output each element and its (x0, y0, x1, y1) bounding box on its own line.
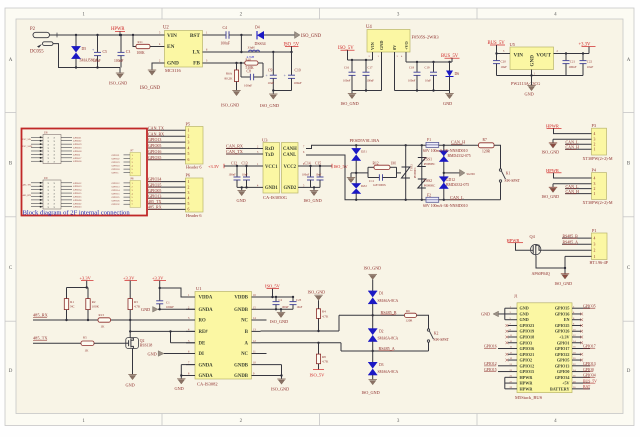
resistor R13 1K (98, 318, 111, 322)
wire net GPIO13 (148, 197, 186, 199)
svg-text:XT30PW(2+2)-M: XT30PW(2+2)-M (583, 200, 613, 205)
svg-text:D: D (627, 369, 631, 374)
svg-text:GND: GND (148, 351, 157, 356)
svg-text:Header 6: Header 6 (186, 164, 201, 169)
svg-text:GPIO5: GPIO5 (557, 358, 570, 363)
zener diode D6 (449, 62, 451, 71)
svg-text:ISO_GND: ISO_GND (542, 194, 560, 199)
svg-text:CA-IS3082: CA-IS3082 (197, 381, 218, 386)
wire (497, 75, 584, 77)
svg-text:3: 3 (594, 243, 596, 247)
capacitor C17 (365, 60, 367, 72)
svg-text:GPIO35: GPIO35 (148, 182, 161, 187)
svg-text:CAN_TX: CAN_TX (226, 149, 243, 154)
capacitor C15 (319, 166, 321, 177)
capacitor C21 (565, 54, 567, 61)
svg-text:D2: D2 (379, 329, 384, 333)
pin 13/14 GPIO3 (508, 342, 517, 344)
pin 11/12 GPIO18 (508, 336, 517, 338)
inductor L1 (212, 51, 292, 53)
svg-text:485_TX: 485_TX (33, 336, 48, 341)
capacitor C14 (310, 166, 312, 177)
svg-text:A: A (9, 58, 13, 63)
svg-text:NC: NC (70, 305, 74, 309)
svg-text:D: D (9, 369, 13, 374)
svg-text:GPIO22: GPIO22 (112, 157, 121, 160)
capacitor C5 (97, 35, 99, 52)
wire CANL rail (306, 155, 426, 200)
wire net 485_RX (33, 319, 98, 321)
resistor R10 510K feedback (245, 61, 258, 65)
svg-text:C19: C19 (425, 66, 431, 70)
capacitor C13 (246, 166, 248, 177)
svg-text:R13: R13 (99, 313, 105, 317)
wire HPWR bus (504, 377, 506, 389)
capacitor C1 (156, 300, 163, 302)
svg-text:I2C_SCK: I2C_SCK (23, 145, 33, 148)
svg-text:3: 3 (594, 138, 596, 142)
wire (406, 61, 452, 63)
svg-text:ISO_GND: ISO_GND (341, 101, 359, 106)
svg-text:GND: GND (481, 311, 490, 316)
svg-text:U1: U1 (196, 286, 201, 291)
wire net GPIO13 (148, 141, 186, 143)
svg-text:P0080EC: P0080EC (414, 167, 417, 178)
svg-text:ISO_GND: ISO_GND (221, 103, 239, 108)
svg-text:GPIO1: GPIO1 (557, 340, 570, 345)
svg-text:GPIO36: GPIO36 (555, 311, 570, 316)
svg-text:ISO_GND: ISO_GND (308, 290, 326, 295)
svg-text:2: 2 (188, 185, 190, 189)
ground ISO_GND (561, 273, 569, 275)
svg-text:C4: C4 (223, 26, 228, 30)
wire net GPIO05 (148, 192, 186, 194)
ground ISO_GND bottom (369, 379, 377, 381)
svg-text:GND1: GND1 (265, 186, 278, 191)
svg-text:ISO_GND: ISO_GND (271, 386, 289, 391)
TVS diode D2 SMA6A-8CA (372, 315, 374, 328)
svg-text:GPIO21: GPIO21 (520, 352, 535, 357)
ground ISO_GND (280, 309, 282, 312)
svg-text:C16: C16 (344, 66, 350, 70)
capacitor C8 (240, 63, 242, 77)
svg-text:5: 5 (188, 152, 190, 156)
svg-text:100nF: 100nF (114, 59, 123, 63)
svg-text:GND: GND (530, 55, 536, 67)
pin stubs U4 (372, 52, 374, 60)
svg-text:10uF: 10uF (501, 65, 508, 69)
svg-text:P3: P3 (592, 123, 597, 128)
resistor R7 120R (479, 143, 495, 148)
pin 1/16 (186, 296, 195, 298)
svg-text:GPIO13: GPIO13 (555, 363, 570, 368)
svg-text:R1: R1 (70, 300, 74, 304)
svg-text:GPIO34: GPIO34 (555, 375, 570, 380)
svg-text:D4: D4 (255, 25, 260, 29)
svg-text:Q2: Q2 (140, 339, 145, 343)
svg-text:100nF: 100nF (221, 42, 230, 46)
svg-text:1: 1 (594, 255, 596, 259)
pin 2/15 (186, 308, 195, 310)
svg-text:GPIO23: GPIO23 (520, 323, 535, 328)
net port GND (153, 307, 158, 313)
svg-text:HPWR: HPWR (546, 124, 559, 129)
svg-text:CAN_TX: CAN_TX (148, 125, 164, 130)
wire VDDA (160, 288, 195, 297)
capacitor C4 bootstrap (212, 34, 226, 36)
wire (67, 287, 87, 289)
pin 8/9 (186, 375, 195, 377)
svg-text:D6: D6 (455, 72, 460, 76)
svg-text:C10: C10 (295, 69, 301, 73)
pin 5/12 (186, 342, 195, 344)
svg-text:GND: GND (175, 386, 184, 391)
pin 27/28 HPWR (508, 382, 517, 384)
svg-text:GND: GND (525, 91, 534, 96)
svg-text:GPIO3: GPIO3 (520, 340, 533, 345)
capacitor C23 (292, 297, 294, 302)
svg-text:ISO_GND: ISO_GND (301, 34, 322, 39)
svg-text:GPIO2: GPIO2 (520, 358, 533, 363)
svg-text:TSS1: TSS1 (424, 157, 432, 161)
svg-text:GNDA: GNDA (199, 374, 214, 379)
switch K1 SW-SPST (494, 145, 501, 169)
transistor Q2 BSS138 (126, 338, 139, 349)
svg-text:485_RX: 485_RX (33, 312, 49, 317)
svg-text:10uF: 10uF (268, 81, 275, 85)
pin stubs U5 (500, 53, 510, 55)
pin 23/24 GPIO15 (508, 371, 517, 373)
NC stubs (261, 319, 267, 321)
net port ISO_GND (264, 34, 295, 36)
svg-text:CANH: CANH (283, 147, 297, 152)
svg-text:GND: GND (237, 198, 246, 203)
svg-text:C22: C22 (587, 59, 593, 63)
svg-text:ISO_GND: ISO_GND (270, 319, 288, 324)
svg-text:10nF: 10nF (316, 173, 322, 176)
wire net CAN_TX (148, 129, 186, 131)
svg-text:R6: R6 (406, 309, 410, 313)
svg-text:GPIO12: GPIO12 (112, 182, 121, 185)
capacitor C22 (582, 54, 584, 61)
wire net CAN_RX (148, 135, 186, 137)
wire net RS485_B rail (339, 314, 405, 316)
wire net CAN_H (439, 144, 479, 146)
wire (564, 53, 589, 55)
capacitor C2 (275, 297, 277, 302)
svg-text:6: 6 (188, 158, 190, 162)
capacitor C9 output (272, 51, 274, 53)
svg-text:GPIO18: GPIO18 (520, 335, 535, 340)
svg-text:100uF: 100uF (294, 81, 302, 85)
ground ISO_GND midpoint (350, 173, 352, 178)
svg-text:A: A (627, 58, 631, 63)
svg-text:ISO_GND: ISO_GND (109, 80, 127, 85)
svg-text:GPIO16: GPIO16 (520, 346, 535, 351)
svg-text:GPIO26: GPIO26 (112, 200, 121, 203)
svg-text:2: 2 (594, 249, 596, 253)
svg-text:RS485_A: RS485_A (563, 240, 579, 244)
svg-text:TxD: TxD (265, 153, 274, 158)
svg-text:BATTERY: BATTERY (550, 386, 570, 391)
svg-text:120R: 120R (406, 319, 414, 323)
ground ISO_GND (313, 187, 315, 190)
svg-text:VIN: VIN (167, 33, 177, 39)
svg-text:GNDB: GNDB (234, 308, 249, 313)
svg-text:2: 2 (594, 143, 596, 147)
svg-text:GPIO35: GPIO35 (555, 306, 570, 311)
svg-text:Header 6: Header 6 (186, 213, 201, 218)
power flag ISO_5V (313, 369, 324, 371)
svg-text:HPWR: HPWR (507, 238, 520, 243)
svg-text:C15: C15 (315, 162, 321, 166)
capacitor C12 (236, 166, 238, 177)
capacitor C11 (368, 177, 379, 179)
svg-text:GPIO22: GPIO22 (555, 352, 570, 357)
wire ISO_GND pin (553, 138, 592, 140)
wire net CAN_H (565, 148, 592, 150)
svg-text:RS485_B: RS485_B (381, 310, 397, 315)
svg-text:GPIO19: GPIO19 (112, 161, 121, 164)
svg-text:VCC1: VCC1 (265, 165, 278, 170)
svg-text:Block diagram of 2F internal c: Block diagram of 2F internal connection (23, 209, 131, 216)
svg-text:SGND: SGND (467, 172, 476, 176)
resistor R6 120R (405, 313, 417, 317)
svg-text:4.7K: 4.7K (322, 360, 329, 364)
svg-text:ISO_GND: ISO_GND (362, 390, 380, 395)
svg-text:BAT: BAT (583, 385, 591, 389)
wire (273, 90, 291, 92)
svg-text:F2: F2 (427, 193, 431, 197)
svg-text:P0080EC: P0080EC (424, 162, 436, 166)
svg-text:GND: GND (167, 61, 179, 67)
wire net GPIO16 (148, 153, 186, 155)
pin 25/26 HPWR (508, 376, 517, 378)
svg-text:SMA6A-8CA: SMA6A-8CA (378, 370, 399, 374)
svg-text:CAN_L: CAN_L (450, 195, 464, 200)
svg-text:CAN_RX: CAN_RX (148, 131, 164, 136)
svg-text:GNDA: GNDA (199, 363, 214, 368)
svg-text:3: 3 (594, 182, 596, 186)
svg-text:GPIO15: GPIO15 (520, 369, 535, 374)
wire VCC1 (224, 165, 263, 167)
wire A (261, 342, 342, 344)
pin 15/16 GPIO16 (508, 348, 517, 350)
svg-text:R7: R7 (483, 138, 487, 142)
svg-text:VOUT: VOUT (536, 52, 551, 58)
svg-text:C2: C2 (279, 298, 283, 302)
wire (397, 172, 402, 174)
svg-text:10uF: 10uF (425, 78, 431, 82)
svg-text:P1: P1 (592, 228, 597, 233)
svg-text:+3.3V: +3.3V (208, 164, 220, 169)
svg-text:PW2113A-33CG: PW2113A-33CG (511, 81, 540, 86)
svg-text:C8: C8 (247, 70, 251, 74)
svg-text:U9: U9 (44, 177, 48, 180)
svg-text:CAN_RX: CAN_RX (226, 144, 243, 149)
wire VCC2 (298, 165, 332, 167)
svg-text:ISO_GND: ISO_GND (260, 103, 280, 108)
svg-text:DZ1: DZ1 (361, 150, 367, 154)
svg-text:VIN: VIN (514, 52, 524, 58)
svg-text:R11: R11 (138, 40, 144, 44)
svg-text:GND: GND (126, 382, 135, 387)
svg-text:GPIO18: GPIO18 (112, 168, 121, 171)
wire net GPIO05 (148, 147, 186, 149)
resistor R11 100K (132, 34, 134, 36)
svg-text:GPIO12: GPIO12 (484, 362, 497, 366)
svg-text:10nF: 10nF (242, 173, 248, 176)
svg-text:100nF: 100nF (367, 78, 375, 82)
TVS TSS2 (418, 179, 426, 188)
svg-text:HT1.96-4P: HT1.96-4P (590, 260, 609, 265)
svg-text:F1: F1 (427, 138, 431, 142)
wire drain to P1 pin2 (542, 249, 591, 251)
svg-text:U2: U2 (163, 26, 169, 31)
svg-text:XT30PW(2+2)-M: XT30PW(2+2)-M (583, 156, 613, 161)
svg-text:ISO_GND: ISO_GND (542, 150, 560, 155)
pin 6/11 (186, 353, 195, 355)
net port GND (499, 313, 505, 315)
capacitor C18 (416, 62, 418, 72)
svg-text:1K: 1K (101, 324, 106, 328)
resistor R4 4.7K (318, 300, 320, 309)
svg-text:C23: C23 (296, 298, 302, 302)
svg-text:HPWR: HPWR (546, 168, 559, 173)
svg-text:10uF: 10uF (297, 306, 303, 309)
wire net CAN_TX (226, 153, 263, 155)
TVS diode D5 (75, 35, 77, 47)
svg-text:100K: 100K (137, 51, 146, 55)
svg-text:C5: C5 (103, 50, 108, 54)
wire net GPIO35 (148, 186, 186, 188)
svg-text:ISO_5V: ISO_5V (265, 284, 281, 289)
capacitor C19 (433, 62, 435, 72)
ground ISO_GND (119, 68, 121, 74)
wire net GPIO34 (148, 181, 186, 183)
svg-text:DSS34: DSS34 (255, 42, 266, 46)
svg-text:GND2: GND2 (284, 186, 297, 191)
svg-text:HPWR: HPWR (520, 386, 534, 391)
svg-text:C18: C18 (409, 66, 415, 70)
svg-text:GPIO17: GPIO17 (555, 346, 570, 351)
svg-text:RS485_B: RS485_B (563, 234, 579, 238)
svg-text:BMD4332-075: BMD4332-075 (448, 154, 471, 158)
svg-text:RxD: RxD (265, 147, 275, 152)
svg-text:485_RX: 485_RX (148, 204, 162, 209)
svg-text:1K: 1K (85, 348, 90, 352)
wire net RS485_A (562, 243, 592, 245)
svg-text:FB: FB (193, 61, 200, 67)
svg-text:100nF: 100nF (343, 78, 351, 82)
svg-text:+: + (284, 73, 286, 77)
resistor R1 NC (64, 299, 68, 310)
wire VDDB (261, 296, 294, 298)
svg-text:P2: P2 (30, 27, 36, 32)
svg-text:GPIO32: GPIO32 (112, 203, 121, 206)
wire net 485_RX (148, 208, 186, 210)
svg-text:ISO_GND: ISO_GND (555, 281, 573, 286)
TVS diode DZ2 (355, 173, 357, 184)
svg-text:1: 1 (188, 129, 190, 133)
resistor R3 4.7K (128, 299, 132, 310)
svg-text:SMA6A-8CA: SMA6A-8CA (378, 337, 399, 341)
diode D4 DSS34 (256, 31, 258, 39)
svg-text:GPIO13: GPIO13 (112, 185, 121, 188)
svg-text:+VO: +VO (404, 41, 409, 50)
svg-text:485_TX: 485_TX (23, 184, 32, 187)
gas discharge tube GD12 (443, 145, 445, 200)
wire GNDA (158, 308, 195, 310)
svg-text:ISO_5V: ISO_5V (334, 164, 349, 169)
svg-text:CAN_H: CAN_H (566, 145, 579, 150)
svg-text:1: 1 (594, 148, 596, 152)
capacitor C20 (496, 54, 498, 61)
svg-text:C17: C17 (368, 66, 374, 70)
wire CANH rail (306, 145, 426, 148)
wire net RS485_B (562, 237, 592, 239)
svg-text:R3: R3 (134, 300, 138, 304)
svg-text:485_RX: 485_RX (23, 194, 32, 197)
svg-text:HPWR: HPWR (520, 375, 534, 380)
svg-text:U3: U3 (262, 137, 268, 142)
switch K2 SW-SPST (417, 315, 429, 329)
pin 21/22 GPIO12 (508, 365, 517, 367)
wire RE#/DE junction (130, 330, 195, 332)
svg-text:1: 1 (594, 192, 596, 196)
capacitor C10 output (291, 52, 293, 75)
wire GNDB (261, 308, 294, 310)
wire midpoint (351, 172, 368, 174)
svg-text:GPIO05: GPIO05 (148, 188, 161, 193)
svg-text:60V 100mA-3K-NNMD010: 60V 100mA-3K-NNMD010 (423, 149, 468, 153)
svg-text:100K: 100K (92, 305, 100, 309)
svg-text:CA-IS3050G: CA-IS3050G (263, 195, 288, 200)
svg-text:A: A (245, 342, 249, 347)
svg-text:F0505S-2WR3: F0505S-2WR3 (412, 34, 440, 39)
svg-text:J1: J1 (514, 294, 518, 299)
svg-text:P5: P5 (186, 122, 191, 127)
svg-text:GPIO13: GPIO13 (148, 137, 161, 142)
border grid ticks (161, 8, 163, 19)
svg-text:1: 1 (188, 180, 190, 184)
svg-text:GND: GND (443, 101, 452, 106)
svg-text:10uF: 10uF (93, 59, 101, 63)
svg-text:D3: D3 (379, 363, 384, 367)
svg-text:GPIO13: GPIO13 (148, 193, 161, 198)
wire ISO_GND pin (553, 183, 592, 185)
svg-text:SW-SPST: SW-SPST (505, 179, 521, 183)
svg-text:4: 4 (594, 176, 596, 180)
svg-text:TSS2: TSS2 (424, 179, 432, 183)
svg-text:10uF: 10uF (587, 65, 594, 69)
svg-text:4: 4 (594, 237, 596, 241)
svg-text:GPIO0: GPIO0 (557, 369, 570, 374)
svg-text:GPIO23: GPIO23 (112, 165, 121, 168)
svg-text:100nF: 100nF (569, 65, 577, 69)
svg-text:GPIO16: GPIO16 (73, 160, 82, 163)
svg-text:CANL: CANL (283, 153, 296, 158)
svg-text:GND: GND (379, 41, 384, 50)
svg-text:NC: NC (241, 319, 248, 324)
svg-text:R10: R10 (246, 57, 252, 61)
pin 3/14 (186, 319, 195, 321)
svg-text:GPIO26: GPIO26 (555, 329, 570, 334)
svg-text:GPIO12: GPIO12 (520, 363, 535, 368)
svg-text:PESD5V0L1BA: PESD5V0L1BA (350, 138, 381, 143)
svg-text:C21: C21 (570, 59, 576, 63)
svg-text:+: + (266, 73, 268, 77)
